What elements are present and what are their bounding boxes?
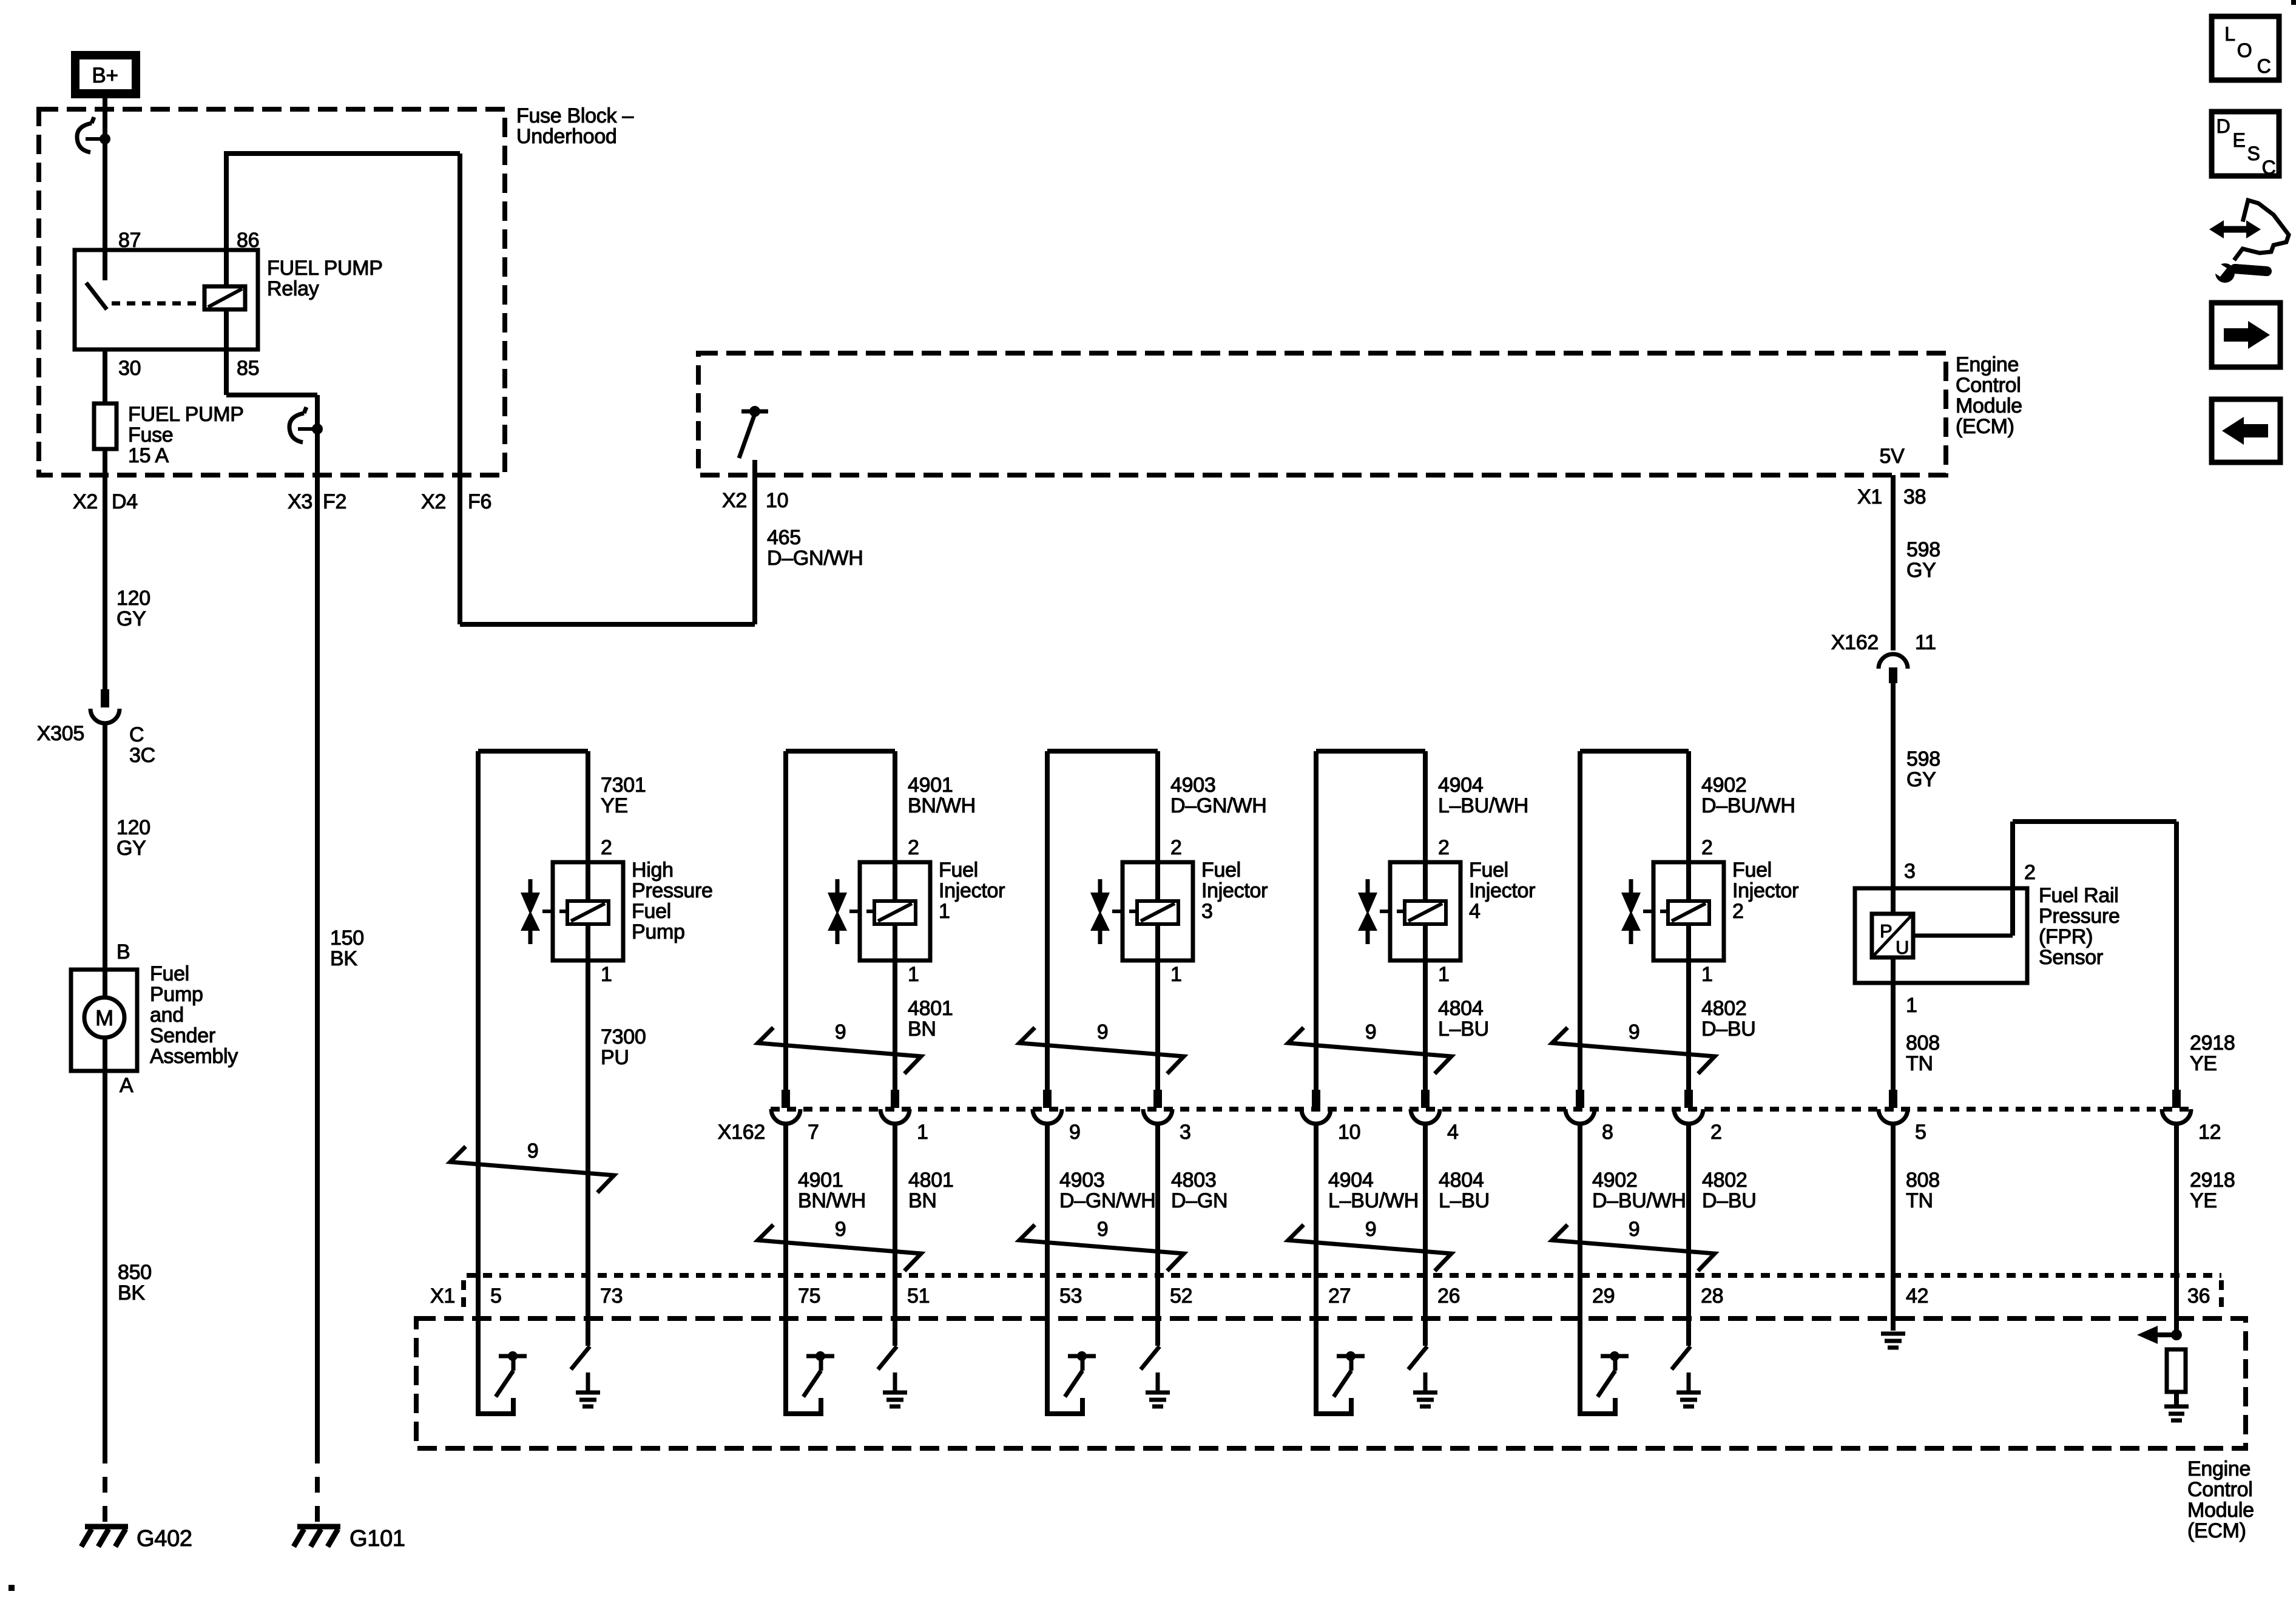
svg-text:1: 1 bbox=[1170, 963, 1182, 986]
svg-text:465: 465 bbox=[767, 526, 801, 549]
svg-text:5: 5 bbox=[490, 1284, 502, 1308]
svg-text:X2: X2 bbox=[73, 490, 98, 513]
svg-text:8: 8 bbox=[1602, 1121, 1613, 1144]
svg-text:(FPR): (FPR) bbox=[2039, 925, 2093, 948]
svg-text:Engine: Engine bbox=[2187, 1457, 2250, 1480]
svg-text:9: 9 bbox=[1629, 1218, 1640, 1241]
svg-text:7300: 7300 bbox=[601, 1025, 646, 1048]
svg-text:2: 2 bbox=[1701, 836, 1713, 859]
svg-text:Pressure: Pressure bbox=[2039, 905, 2120, 928]
svg-text:12: 12 bbox=[2198, 1121, 2221, 1144]
svg-text:9: 9 bbox=[1097, 1021, 1109, 1044]
svg-text:X162: X162 bbox=[718, 1121, 765, 1144]
svg-text:(ECM): (ECM) bbox=[2187, 1519, 2246, 1542]
svg-text:808: 808 bbox=[1906, 1169, 1940, 1192]
svg-text:L: L bbox=[2224, 23, 2235, 45]
svg-text:11: 11 bbox=[1915, 631, 1936, 654]
svg-text:87: 87 bbox=[118, 229, 141, 252]
svg-text:Fuel Rail: Fuel Rail bbox=[2039, 884, 2118, 907]
svg-text:1: 1 bbox=[601, 963, 612, 986]
svg-text:28: 28 bbox=[1701, 1284, 1723, 1308]
svg-text:808: 808 bbox=[1906, 1031, 1940, 1055]
svg-text:TN: TN bbox=[1906, 1052, 1933, 1075]
svg-text:53: 53 bbox=[1059, 1284, 1082, 1308]
svg-text:X1: X1 bbox=[1857, 485, 1882, 508]
svg-text:D–GN/WH: D–GN/WH bbox=[767, 547, 863, 570]
svg-text:BK: BK bbox=[118, 1281, 145, 1305]
svg-text:O: O bbox=[2237, 39, 2252, 61]
svg-text:4: 4 bbox=[1469, 900, 1481, 923]
svg-text:4804: 4804 bbox=[1439, 1169, 1484, 1192]
svg-text:150: 150 bbox=[330, 927, 364, 950]
svg-text:FUEL PUMP: FUEL PUMP bbox=[128, 403, 244, 426]
svg-text:Fuel: Fuel bbox=[939, 859, 978, 882]
svg-text:Injector: Injector bbox=[1469, 879, 1535, 902]
svg-text:75: 75 bbox=[798, 1284, 820, 1308]
svg-text:29: 29 bbox=[1592, 1284, 1615, 1308]
svg-text:Injector: Injector bbox=[1201, 879, 1268, 902]
svg-text:85: 85 bbox=[237, 357, 259, 380]
svg-text:9: 9 bbox=[527, 1139, 539, 1163]
svg-text:9: 9 bbox=[835, 1218, 846, 1241]
svg-text:Fuel: Fuel bbox=[1469, 859, 1508, 882]
svg-text:Pressure: Pressure bbox=[632, 879, 713, 902]
svg-text:Fuse Block –: Fuse Block – bbox=[516, 104, 633, 127]
svg-text:3C: 3C bbox=[129, 744, 155, 767]
svg-text:850: 850 bbox=[118, 1261, 152, 1284]
svg-text:A: A bbox=[120, 1074, 133, 1097]
svg-text:4801: 4801 bbox=[908, 1169, 953, 1192]
svg-text:Underhood: Underhood bbox=[516, 125, 617, 148]
svg-text:Pump: Pump bbox=[150, 983, 203, 1006]
svg-text:Injector: Injector bbox=[939, 879, 1005, 902]
svg-text:L–BU: L–BU bbox=[1439, 1189, 1490, 1212]
svg-text:3: 3 bbox=[1201, 900, 1213, 923]
svg-text:120: 120 bbox=[116, 587, 150, 610]
svg-text:C: C bbox=[129, 723, 144, 746]
svg-text:Fuel: Fuel bbox=[1732, 859, 1772, 882]
svg-text:YE: YE bbox=[601, 794, 628, 817]
svg-text:2918: 2918 bbox=[2190, 1031, 2235, 1055]
svg-text:38: 38 bbox=[1903, 485, 1926, 508]
svg-text:GY: GY bbox=[1906, 559, 1936, 582]
svg-text:15 A: 15 A bbox=[128, 444, 169, 467]
svg-text:FUEL PUMP: FUEL PUMP bbox=[267, 257, 383, 280]
svg-text:2: 2 bbox=[2024, 861, 2036, 884]
svg-text:86: 86 bbox=[237, 229, 259, 252]
svg-text:L–BU/WH: L–BU/WH bbox=[1438, 794, 1528, 817]
svg-text:3: 3 bbox=[1180, 1121, 1191, 1144]
svg-text:1: 1 bbox=[1701, 963, 1713, 986]
svg-text:D–BU/WH: D–BU/WH bbox=[1701, 794, 1795, 817]
svg-text:D–GN/WH: D–GN/WH bbox=[1170, 794, 1266, 817]
svg-text:2: 2 bbox=[1170, 836, 1182, 859]
svg-text:27: 27 bbox=[1328, 1284, 1351, 1308]
svg-text:G402: G402 bbox=[137, 1526, 192, 1551]
svg-text:1: 1 bbox=[1906, 994, 1917, 1017]
svg-text:TN: TN bbox=[1906, 1189, 1933, 1212]
svg-text:Assembly: Assembly bbox=[150, 1045, 238, 1068]
svg-text:BN/WH: BN/WH bbox=[908, 794, 976, 817]
svg-text:Control: Control bbox=[1956, 374, 2021, 397]
svg-text:9: 9 bbox=[1365, 1021, 1377, 1044]
svg-text:10: 10 bbox=[766, 489, 788, 512]
svg-text:Engine: Engine bbox=[1956, 353, 2019, 376]
svg-text:D–BU: D–BU bbox=[1701, 1018, 1756, 1041]
svg-text:120: 120 bbox=[116, 816, 150, 839]
svg-text:4801: 4801 bbox=[908, 997, 953, 1020]
svg-text:Injector: Injector bbox=[1732, 879, 1798, 902]
svg-text:X2: X2 bbox=[421, 490, 446, 513]
svg-text:BN: BN bbox=[908, 1018, 936, 1041]
svg-text:2: 2 bbox=[908, 836, 919, 859]
svg-text:Fuel: Fuel bbox=[632, 900, 671, 923]
svg-text:4902: 4902 bbox=[1701, 774, 1746, 797]
svg-text:1: 1 bbox=[917, 1121, 928, 1144]
svg-text:F2: F2 bbox=[323, 490, 346, 513]
svg-text:4903: 4903 bbox=[1170, 774, 1215, 797]
svg-text:3: 3 bbox=[1904, 860, 1916, 883]
svg-text:D–GN/WH: D–GN/WH bbox=[1059, 1189, 1155, 1212]
svg-text:26: 26 bbox=[1437, 1284, 1460, 1308]
svg-text:7: 7 bbox=[808, 1121, 819, 1144]
svg-text:Sender: Sender bbox=[150, 1024, 215, 1047]
svg-text:GY: GY bbox=[116, 837, 146, 860]
svg-text:36: 36 bbox=[2187, 1284, 2210, 1308]
svg-text:4902: 4902 bbox=[1592, 1169, 1637, 1192]
svg-text:BN/WH: BN/WH bbox=[798, 1189, 866, 1212]
svg-text:4802: 4802 bbox=[1701, 997, 1746, 1020]
svg-text:1: 1 bbox=[1438, 963, 1450, 986]
svg-text:4: 4 bbox=[1447, 1121, 1459, 1144]
svg-text:9: 9 bbox=[1365, 1218, 1377, 1241]
svg-text:2: 2 bbox=[601, 836, 612, 859]
svg-text:Fuse: Fuse bbox=[128, 424, 173, 447]
svg-text:4904: 4904 bbox=[1438, 774, 1483, 797]
svg-text:4804: 4804 bbox=[1438, 997, 1483, 1020]
svg-text:(ECM): (ECM) bbox=[1956, 415, 2014, 438]
svg-text:4803: 4803 bbox=[1171, 1169, 1216, 1192]
svg-text:D–BU: D–BU bbox=[1702, 1189, 1757, 1212]
svg-text:7301: 7301 bbox=[601, 774, 646, 797]
svg-text:X305: X305 bbox=[37, 722, 84, 745]
svg-text:2918: 2918 bbox=[2190, 1169, 2235, 1192]
svg-text:9: 9 bbox=[1097, 1218, 1109, 1241]
svg-text:L–BU/WH: L–BU/WH bbox=[1328, 1189, 1419, 1212]
svg-text:10: 10 bbox=[1338, 1121, 1360, 1144]
svg-text:4802: 4802 bbox=[1702, 1169, 1747, 1192]
svg-text:F6: F6 bbox=[468, 490, 491, 513]
svg-text:BN: BN bbox=[908, 1189, 937, 1212]
svg-text:X2: X2 bbox=[722, 489, 747, 512]
svg-text:D–BU/WH: D–BU/WH bbox=[1592, 1189, 1686, 1212]
svg-text:Pump: Pump bbox=[632, 920, 685, 944]
svg-text:4903: 4903 bbox=[1059, 1169, 1104, 1192]
svg-text:598: 598 bbox=[1906, 538, 1940, 561]
svg-text:9: 9 bbox=[1069, 1121, 1081, 1144]
svg-text:D: D bbox=[2217, 115, 2230, 137]
svg-text:L–BU: L–BU bbox=[1438, 1018, 1489, 1041]
svg-text:1: 1 bbox=[939, 900, 950, 923]
svg-text:C: C bbox=[2257, 55, 2271, 77]
svg-text:High: High bbox=[632, 859, 674, 882]
svg-text:9: 9 bbox=[1629, 1021, 1640, 1044]
svg-text:U: U bbox=[1896, 937, 1909, 958]
svg-text:Sensor: Sensor bbox=[2039, 946, 2103, 969]
svg-text:PU: PU bbox=[601, 1046, 629, 1069]
svg-text:Module: Module bbox=[1956, 394, 2022, 417]
svg-text:73: 73 bbox=[600, 1284, 623, 1308]
svg-text:4901: 4901 bbox=[798, 1169, 843, 1192]
svg-text:D4: D4 bbox=[112, 490, 138, 513]
svg-text:S: S bbox=[2247, 143, 2260, 164]
svg-text:G101: G101 bbox=[349, 1526, 405, 1551]
svg-text:4904: 4904 bbox=[1328, 1169, 1373, 1192]
svg-text:Fuel: Fuel bbox=[150, 962, 189, 985]
svg-text:GY: GY bbox=[116, 607, 146, 630]
svg-text:GY: GY bbox=[1906, 768, 1936, 791]
svg-text:42: 42 bbox=[1906, 1284, 1928, 1308]
svg-text:X1: X1 bbox=[430, 1284, 455, 1308]
svg-text:X3: X3 bbox=[288, 490, 312, 513]
svg-text:Fuel: Fuel bbox=[1201, 859, 1241, 882]
svg-text:5: 5 bbox=[1915, 1121, 1926, 1144]
svg-text:1: 1 bbox=[908, 963, 919, 986]
svg-text:C: C bbox=[2262, 157, 2276, 178]
svg-text:30: 30 bbox=[118, 357, 141, 380]
svg-text:YE: YE bbox=[2190, 1189, 2217, 1212]
svg-text:9: 9 bbox=[835, 1021, 846, 1044]
svg-text:51: 51 bbox=[907, 1284, 930, 1308]
svg-text:P: P bbox=[1880, 920, 1892, 942]
svg-text:52: 52 bbox=[1170, 1284, 1192, 1308]
svg-text:and: and bbox=[150, 1004, 184, 1027]
svg-text:2: 2 bbox=[1438, 836, 1450, 859]
svg-text:BK: BK bbox=[330, 947, 357, 970]
svg-text:D–GN: D–GN bbox=[1171, 1189, 1227, 1212]
svg-text:2: 2 bbox=[1710, 1121, 1722, 1144]
svg-text:B+: B+ bbox=[92, 64, 118, 87]
svg-text:2: 2 bbox=[1732, 900, 1744, 923]
svg-text:B: B bbox=[116, 940, 130, 964]
svg-text:M: M bbox=[95, 1005, 113, 1030]
svg-text:5V: 5V bbox=[1880, 445, 1905, 468]
svg-text:X162: X162 bbox=[1831, 631, 1879, 654]
svg-text:E: E bbox=[2232, 129, 2245, 151]
svg-text:4901: 4901 bbox=[908, 774, 953, 797]
svg-text:598: 598 bbox=[1906, 748, 1940, 771]
svg-text:Control: Control bbox=[2187, 1478, 2253, 1501]
svg-text:Relay: Relay bbox=[267, 277, 319, 300]
svg-text:Module: Module bbox=[2187, 1499, 2254, 1522]
svg-text:YE: YE bbox=[2190, 1052, 2217, 1075]
